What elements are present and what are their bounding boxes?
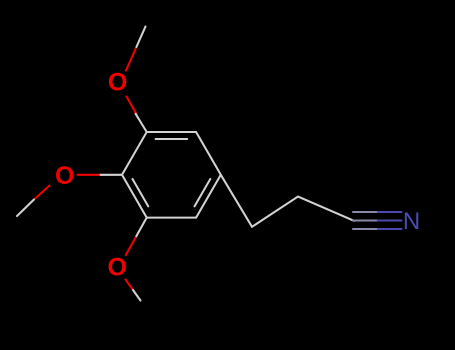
svg-text:O: O xyxy=(107,254,126,282)
svg-text:O: O xyxy=(55,162,74,190)
svg-text:O: O xyxy=(108,69,127,97)
svg-text:N: N xyxy=(403,208,420,235)
